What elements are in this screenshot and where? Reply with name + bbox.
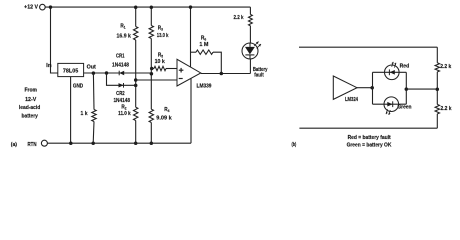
svg-text:13.0 k: 13.0 k — [157, 33, 169, 39]
svg-text:Out: Out — [87, 65, 96, 71]
svg-text:Green = battery OK: Green = battery OK — [347, 142, 392, 148]
svg-text:GND: GND — [73, 83, 84, 89]
svg-text:16.9 k: 16.9 k — [117, 33, 131, 39]
svg-text:11.0 k: 11.0 k — [118, 111, 131, 117]
svg-text:1N4148: 1N4148 — [113, 98, 130, 104]
svg-text:Green: Green — [397, 105, 411, 111]
svg-text:R1: R1 — [120, 23, 125, 29]
svg-text:R5: R5 — [158, 53, 163, 59]
svg-text:R2: R2 — [121, 104, 126, 110]
svg-text:RTN: RTN — [28, 142, 37, 148]
svg-text:CR1: CR1 — [116, 54, 125, 60]
svg-text:R4: R4 — [164, 107, 169, 113]
svg-text:R3: R3 — [158, 25, 163, 31]
svg-text:(a): (a) — [11, 142, 17, 148]
svg-text:2.2 k: 2.2 k — [440, 64, 451, 70]
svg-text:lead-acid: lead-acid — [19, 105, 41, 111]
svg-text:1 k: 1 k — [81, 111, 88, 117]
svg-text:2.2 k: 2.2 k — [234, 15, 244, 21]
svg-text:Red: Red — [400, 63, 410, 69]
svg-text:LM324: LM324 — [345, 97, 358, 103]
svg-text:Red = battery fault: Red = battery fault — [348, 135, 391, 141]
svg-text:fault: fault — [254, 73, 264, 79]
svg-text:R6: R6 — [201, 35, 206, 41]
svg-text:78L05: 78L05 — [63, 69, 78, 75]
svg-text:12-V: 12-V — [25, 97, 37, 103]
svg-text:LM339: LM339 — [197, 83, 212, 89]
svg-text:10 k: 10 k — [155, 59, 165, 65]
svg-text:(b): (b) — [292, 142, 297, 148]
svg-text:battery: battery — [22, 113, 38, 119]
svg-text:CR2: CR2 — [116, 91, 125, 97]
svg-text:9.09 k: 9.09 k — [156, 115, 172, 121]
svg-text:1 M: 1 M — [199, 42, 208, 48]
svg-text:+12 V: +12 V — [24, 4, 38, 10]
svg-text:In: In — [46, 63, 52, 69]
svg-text:1N4148: 1N4148 — [112, 63, 129, 69]
svg-text:From: From — [25, 88, 38, 94]
svg-text:2.2 k: 2.2 k — [441, 106, 452, 112]
